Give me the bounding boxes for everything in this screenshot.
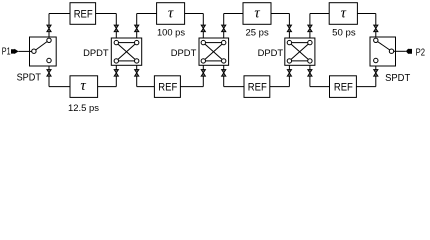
SPDT S2 switch arm [378,42,390,50]
DPDT U1 contact pin1 top-left [114,40,118,44]
SPDT S1 throw contact top [47,38,51,42]
wire REF1 out to DPDT U1 in [96,13,117,15]
SPDT S2 throw contact top [374,38,378,42]
SPDT S1 throw contact bottom [47,58,51,62]
SPDT switch S2 box [370,37,396,66]
wire vertical DPDT U1 pin 2 [136,14,138,39]
delay element T2 box [157,3,185,25]
svg-text:SPDT: SPDT [385,73,410,84]
wire T1 out to DPDT U1 lower in [98,86,117,88]
svg-text:100 ps: 100 ps [157,28,185,38]
wire REF2 out to DPDT U2 lower in [180,86,203,88]
pin connector on wire vertical DPDT U3 pin 4 [308,70,312,77]
DPDT U3 cross path 1 [291,44,308,59]
DPDT U3 through path top [292,42,308,44]
wire REF4 out to SPDT P2 bottom [356,86,375,88]
DPDT U3 contact pin1 top-left [287,40,291,44]
wire T2 out to DPDT U2 in [185,13,204,15]
wire vertical DPDT U3 pin 1 [288,14,290,39]
svg-text:REF: REF [74,8,93,20]
svg-text:REF: REF [158,81,177,93]
pin connector on wire vertical SPDT S2 bottom pin [374,70,378,77]
svg-text:DPDT: DPDT [83,48,109,59]
delay element T1 box [70,76,98,98]
wire vertical DPDT U2 pin 2 [223,14,225,39]
wire DPDT U2 lower out to REF3 in [224,86,244,88]
svg-text:τ: τ [80,78,86,94]
wire vertical SPDT S1 bottom pin [48,66,50,87]
port P2 stub wire [394,50,406,52]
wire DPDT U1 out to T2 in [137,13,157,15]
wire vertical DPDT U2 pin 3 [202,65,204,86]
svg-text:DPDT: DPDT [171,48,197,59]
wire T4 out to SPDT P2 top [357,13,375,15]
DPDT U3 contact pin3 bottom-left [287,59,291,63]
DPDT U1 cross path 2 [118,44,135,59]
wire SPDT P1 top to REF1 in [49,13,70,15]
DPDT switch U1 box [111,38,141,65]
wire vertical DPDT U1 pin 4 [136,65,138,86]
wire DPDT U3 out to T4 in [310,13,329,15]
wire DPDT U1 lower out to REF2 in [137,86,155,88]
wire DPDT U2 out to T3 in [224,13,243,15]
pin connector on wire vertical SPDT S1 bottom pin [47,70,51,77]
svg-text:REF: REF [248,81,267,93]
reference line REF box (section 1) [70,3,96,25]
wire vertical DPDT U2 pin 1 [202,14,204,39]
DPDT U2 contact pin2 top-right [222,40,226,44]
pin connector on wire vertical DPDT U2 pin 4 [222,70,226,77]
delay element T4 box [329,3,357,25]
svg-text:P2: P2 [416,47,426,58]
SPDT S1 pole contact [32,49,36,53]
wire vertical SPDT S2 top pin [375,14,377,38]
svg-text:25 ps: 25 ps [246,28,270,38]
svg-text:SPDT: SPDT [17,72,41,83]
wire vertical DPDT U1 pin 1 [115,14,117,39]
DPDT U1 contact pin2 top-right [135,40,139,44]
svg-text:P1: P1 [2,47,11,58]
svg-text:50 ps: 50 ps [332,28,356,38]
pin connector on wire vertical DPDT U2 pin 3 [201,70,205,77]
wire vertical DPDT U1 pin 3 [115,65,117,86]
wire vertical SPDT S1 top pin [48,14,50,38]
pin connector on wire vertical DPDT U1 pin 2 [135,25,139,32]
svg-text:τ: τ [168,6,174,22]
DPDT U3 cross path 2 [291,44,308,59]
pin connector on wire vertical DPDT U3 pin 1 [287,25,291,32]
reference line REF box (section 3) [244,76,270,98]
port P1 stub wire [18,50,31,52]
SPDT switch S1 box [30,37,57,66]
svg-text:DPDT: DPDT [258,48,284,59]
pin connector on wire vertical DPDT U3 pin 3 [287,70,291,77]
DPDT U3 contact pin2 top-right [308,40,312,44]
svg-text:REF: REF [334,81,353,93]
svg-text:τ: τ [341,6,347,22]
pin connector on wire vertical DPDT U1 pin 4 [135,70,139,77]
wire vertical DPDT U3 pin 2 [309,14,311,39]
DPDT U2 through path top [206,42,222,44]
DPDT U2 cross path 1 [205,44,222,59]
wire vertical SPDT S2 bottom pin [375,66,377,87]
port P1 terminal [11,49,19,54]
DPDT U3 through path bottom [292,60,308,62]
DPDT U1 through path bottom [119,60,135,62]
DPDT U2 cross path 2 [205,44,222,59]
DPDT U1 cross path 1 [118,44,135,59]
wire T3 out to DPDT U3 in [271,13,289,15]
DPDT U1 contact pin3 bottom-left [114,59,118,63]
svg-text:12.5 ps: 12.5 ps [68,103,99,113]
delay element T3 box [243,3,271,25]
DPDT U1 contact pin4 bottom-right [135,59,139,63]
wire vertical DPDT U2 pin 4 [223,65,225,86]
SPDT S2 pole contact [389,49,393,53]
DPDT switch U3 box [285,38,315,65]
DPDT U1 through path top [119,42,135,44]
svg-text:τ: τ [254,6,260,22]
DPDT U2 through path bottom [206,60,222,62]
wire REF3 out to DPDT U3 lower in [270,86,290,88]
pin connector on wire vertical DPDT U2 pin 2 [222,25,226,32]
wire DPDT U3 lower out to REF4 in [310,86,330,88]
reference line REF box (section 4) [330,76,357,98]
SPDT S2 throw contact bottom [374,58,378,62]
wire SPDT P1 bottom to T1 in [49,86,70,88]
pin connector on wire vertical SPDT S2 top pin [374,25,378,32]
SPDT S1 switch arm [36,42,47,50]
wire vertical DPDT U3 pin 3 [288,65,290,86]
DPDT U2 contact pin1 top-left [201,40,205,44]
pin connector on wire vertical DPDT U1 pin 1 [114,25,118,32]
DPDT U3 contact pin4 bottom-right [308,59,312,63]
pin connector on wire vertical DPDT U3 pin 2 [308,25,312,32]
DPDT U2 contact pin3 bottom-left [201,59,205,63]
pin connector on wire vertical DPDT U1 pin 3 [114,70,118,77]
reference line REF box (section 2) [154,76,180,98]
pin connector on wire vertical SPDT S1 top pin [47,25,51,32]
pin connector on wire vertical DPDT U2 pin 1 [201,25,205,32]
port P2 terminal [406,49,412,55]
DPDT switch U2 box [199,38,229,65]
DPDT U2 contact pin4 bottom-right [222,59,226,63]
wire vertical DPDT U3 pin 4 [309,65,311,86]
